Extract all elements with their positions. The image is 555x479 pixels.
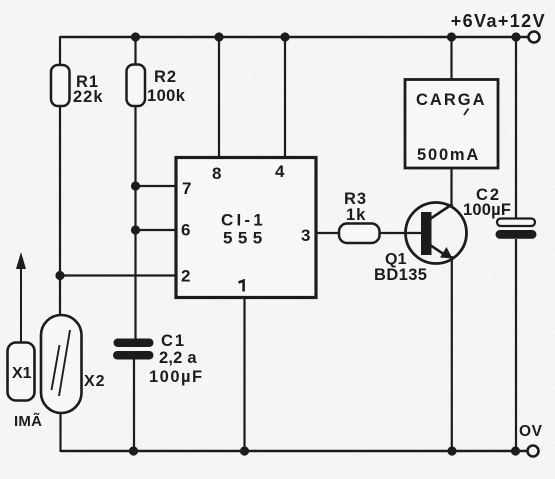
load box CARGA bbox=[405, 80, 498, 169]
magnet X1 bbox=[8, 343, 35, 401]
wire pin 6 stub bbox=[136, 229, 177, 231]
svg-text:IMÃ: IMÃ bbox=[14, 412, 42, 430]
resistor R2 bbox=[127, 65, 146, 107]
svg-text:2,2 a: 2,2 a bbox=[159, 349, 197, 367]
wire right rail top (rail to C2) bbox=[515, 36, 517, 220]
svg-text:+6Va+12V: +6Va+12V bbox=[451, 11, 546, 31]
terminal +V open circle bbox=[529, 32, 540, 43]
reed switch X2 bbox=[41, 315, 82, 413]
junction node emitter bottom rail bbox=[447, 446, 456, 455]
svg-text:BD135: BD135 bbox=[374, 266, 427, 284]
pin 1 label bbox=[239, 281, 244, 292]
resistor R1 bbox=[51, 65, 70, 106]
junction node carga top rail bbox=[447, 32, 456, 41]
wire pin 7 stub bbox=[136, 185, 177, 187]
junction node pin8 top rail bbox=[214, 32, 223, 41]
wire left rail middle (R1 to X2) bbox=[59, 105, 61, 316]
svg-text:X2: X2 bbox=[84, 373, 106, 390]
svg-text:22k: 22k bbox=[73, 88, 104, 106]
svg-text:CI-1: CI-1 bbox=[221, 211, 266, 230]
svg-text:C1: C1 bbox=[161, 332, 186, 350]
tick mark bbox=[464, 109, 469, 116]
magnet arrow bbox=[16, 252, 26, 344]
svg-text:8: 8 bbox=[212, 164, 221, 183]
wire pin 4 vertical bbox=[284, 36, 286, 158]
svg-text:1k: 1k bbox=[346, 206, 366, 224]
svg-text:R2: R2 bbox=[154, 68, 177, 86]
svg-text:2: 2 bbox=[181, 267, 190, 286]
transistor Q1 bbox=[406, 203, 467, 264]
wire pin 2 horizontal bbox=[60, 274, 176, 276]
svg-text:100µF: 100µF bbox=[463, 201, 511, 219]
junction node R2 top rail bbox=[131, 32, 140, 41]
wire left rail top (rail to R1) bbox=[59, 36, 61, 67]
svg-text:OV: OV bbox=[519, 423, 543, 440]
wire C1 bottom to rail bbox=[133, 358, 135, 452]
capacitor C1 bbox=[113, 339, 154, 360]
junction node pin6 bbox=[131, 225, 140, 234]
wire Q1 emitter vertical bbox=[451, 256, 453, 452]
junction node pin1 bottom rail bbox=[240, 446, 249, 455]
svg-text:6: 6 bbox=[181, 221, 190, 240]
junction node right rail bottom bbox=[511, 446, 520, 455]
junction node pin7 bbox=[131, 181, 140, 190]
junction node C1 bottom rail bbox=[129, 446, 138, 455]
wire R2 to C1 vertical bbox=[134, 105, 136, 340]
wire R3 to Q1 base bbox=[379, 232, 421, 234]
svg-text:7: 7 bbox=[182, 179, 191, 198]
junction node right rail top bbox=[511, 32, 520, 41]
capacitor C2 bbox=[496, 219, 537, 239]
wire right rail bottom (C2 to 0V) bbox=[515, 239, 517, 452]
wire pin 1 vertical bbox=[243, 297, 245, 452]
wire bottom 0V rail bbox=[61, 450, 528, 452]
resistor R3 bbox=[339, 224, 380, 244]
junction node pin2 / left rail bbox=[55, 271, 64, 280]
wire top supply rail bbox=[60, 36, 529, 38]
svg-text:3: 3 bbox=[301, 226, 310, 245]
svg-text:100k: 100k bbox=[147, 87, 186, 105]
svg-text:4: 4 bbox=[275, 162, 285, 181]
junction node pin4 top rail bbox=[280, 32, 289, 41]
svg-text:X1: X1 bbox=[12, 365, 32, 382]
svg-text:CARGA: CARGA bbox=[416, 91, 487, 109]
wire R2 rail top (rail to R2) bbox=[134, 36, 136, 67]
wire CARGA bottom to Q1 collector bbox=[450, 168, 452, 206]
wire pin 8 vertical bbox=[218, 36, 220, 158]
wire CARGA top (rail to box) bbox=[450, 36, 452, 81]
wire pin 3 to R3 bbox=[316, 232, 340, 234]
terminal 0V open circle bbox=[528, 446, 539, 457]
svg-text:500mA: 500mA bbox=[417, 146, 480, 164]
svg-text:100µF: 100µF bbox=[149, 368, 204, 386]
op-amp U1 555 IC body CI-1 bbox=[176, 158, 316, 298]
svg-text:555: 555 bbox=[223, 229, 268, 248]
wire left rail bottom (X2 to 0V rail) bbox=[59, 412, 61, 452]
